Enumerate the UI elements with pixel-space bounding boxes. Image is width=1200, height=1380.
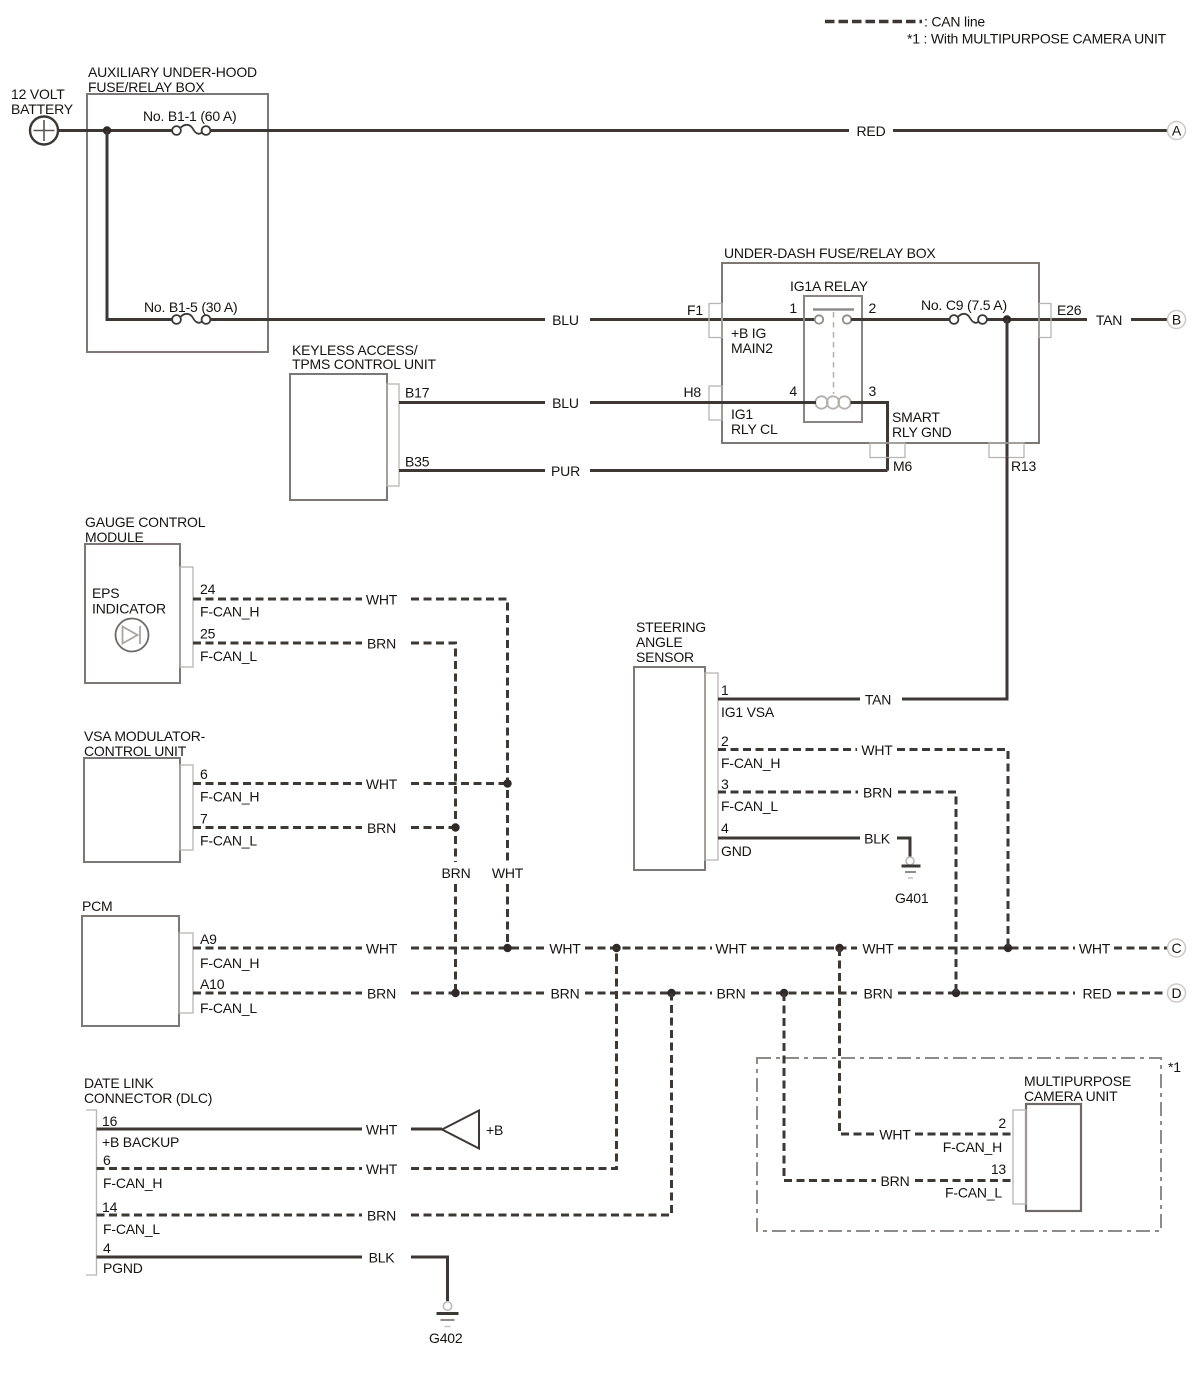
svg-text:BLU: BLU xyxy=(552,312,579,328)
svg-text:F-CAN_H: F-CAN_H xyxy=(721,755,780,771)
svg-text:F-CAN_H: F-CAN_H xyxy=(200,789,259,805)
svg-text:F-CAN_H: F-CAN_H xyxy=(200,604,259,620)
wire BLK to ground xyxy=(411,1257,448,1301)
wire pin6 F-CAN_H to WHT xyxy=(193,782,362,785)
svg-text:A9: A9 xyxy=(200,931,217,947)
wire A9 to WHT xyxy=(193,947,362,950)
auxiliary under-hood fuse/relay box xyxy=(87,94,268,352)
EPS indicator lamp xyxy=(116,619,149,652)
fuse No. C9 (7.5 A) xyxy=(950,314,987,324)
wire RED to terminal A xyxy=(893,129,1168,132)
svg-text:RLY GND: RLY GND xyxy=(892,424,952,440)
junction BRN steering xyxy=(952,989,960,997)
wire pin6 F-CAN_H to WHT xyxy=(97,1167,363,1170)
ground G401 xyxy=(902,857,921,878)
junction VSA F-CAN_L xyxy=(451,823,459,831)
svg-text:G402: G402 xyxy=(429,1330,463,1346)
svg-text:BRN: BRN xyxy=(442,865,471,881)
svg-text:IG1 VSA: IG1 VSA xyxy=(721,704,775,720)
svg-text:PGND: PGND xyxy=(103,1260,143,1276)
svg-text:BRN: BRN xyxy=(881,1173,910,1189)
svg-text:*1 : With MULTIPURPOSE CAMERA: *1 : With MULTIPURPOSE CAMERA UNIT xyxy=(907,31,1167,47)
svg-text:6: 6 xyxy=(200,766,208,782)
terminal A xyxy=(1168,122,1186,140)
wire WHT down to CAN line xyxy=(897,750,1008,949)
svg-text:F-CAN_L: F-CAN_L xyxy=(200,648,257,664)
svg-text:F-CAN_H: F-CAN_H xyxy=(943,1139,1002,1155)
keyless access/TPMS control unit xyxy=(290,374,387,500)
wire BLU to connector F1 xyxy=(590,318,815,321)
ground G402 xyxy=(437,1302,459,1327)
svg-text:INDICATOR: INDICATOR xyxy=(92,601,166,617)
svg-text:WHT: WHT xyxy=(1079,941,1111,957)
option box *1 dash-dot xyxy=(757,1058,1161,1231)
svg-text:WHT: WHT xyxy=(862,941,894,957)
wire pin24 F-CAN_H to WHT xyxy=(193,598,362,601)
svg-text:BRN: BRN xyxy=(367,636,396,652)
svg-text:A10: A10 xyxy=(200,976,225,992)
wire WHT segment 4 xyxy=(751,947,857,950)
wire B17 to BLU label xyxy=(399,401,545,404)
svg-text:F-CAN_L: F-CAN_L xyxy=(103,1221,160,1237)
wire pin1 to TAN xyxy=(718,698,860,701)
svg-text:BRN: BRN xyxy=(863,785,892,801)
svg-text:WHT: WHT xyxy=(861,742,893,758)
gauge control module xyxy=(85,544,180,683)
svg-text:4: 4 xyxy=(103,1240,111,1256)
PCM connector bracket xyxy=(179,933,193,1013)
power symbol +B xyxy=(442,1111,479,1149)
svg-text:F-CAN_H: F-CAN_H xyxy=(200,955,259,971)
PCM box xyxy=(82,916,179,1026)
under-dash fuse/relay box xyxy=(722,263,1039,443)
steering connector bracket xyxy=(705,673,718,860)
svg-text:CAMERA UNIT: CAMERA UNIT xyxy=(1024,1088,1118,1104)
wire BRN vertical lower xyxy=(454,884,457,993)
svg-text:BRN: BRN xyxy=(367,820,396,836)
svg-text:DATE LINK: DATE LINK xyxy=(84,1075,154,1091)
svg-text:No. C9 (7.5 A): No. C9 (7.5 A) xyxy=(921,297,1007,313)
svg-text:7: 7 xyxy=(200,811,208,827)
wire WHT to pin 2 xyxy=(915,1133,1013,1136)
wire WHT to junction xyxy=(411,782,508,785)
svg-text:B17: B17 xyxy=(405,385,430,401)
svg-text:MODULE: MODULE xyxy=(85,529,144,545)
connector R13 xyxy=(989,443,1024,458)
svg-text:24: 24 xyxy=(200,581,216,597)
wire BLK to ground xyxy=(897,838,910,857)
junction VSA F-CAN_H xyxy=(503,779,511,787)
svg-text:2: 2 xyxy=(721,733,729,749)
connector H8 xyxy=(709,386,722,420)
wire WHT to terminal C xyxy=(1114,947,1168,950)
svg-text:WHT: WHT xyxy=(366,592,398,608)
svg-text:4: 4 xyxy=(789,383,797,399)
svg-text:F1: F1 xyxy=(687,302,703,318)
svg-text:WHT: WHT xyxy=(715,941,747,957)
wire BRN to vertical xyxy=(411,643,456,862)
svg-text:CONTROL UNIT: CONTROL UNIT xyxy=(84,743,187,759)
wire BLU to connector H8 xyxy=(590,401,816,404)
svg-text:F-CAN_L: F-CAN_L xyxy=(721,798,778,814)
wire WHT segment 3 xyxy=(585,947,712,950)
svg-text:2: 2 xyxy=(869,300,877,316)
wire TAN to terminal B xyxy=(1131,318,1168,321)
wire pin2 F-CAN_H to WHT xyxy=(718,748,857,751)
svg-text:UNDER-DASH FUSE/RELAY BOX: UNDER-DASH FUSE/RELAY BOX xyxy=(724,245,936,261)
svg-text:: CAN line: : CAN line xyxy=(924,14,985,30)
svg-text:H8: H8 xyxy=(684,384,702,400)
camera connector bracket xyxy=(1013,1110,1026,1204)
svg-text:G401: G401 xyxy=(895,890,929,906)
wire relay pin2 to fuse C9 xyxy=(851,318,950,321)
wire pin7 F-CAN_L to BRN xyxy=(193,826,362,829)
svg-text:3: 3 xyxy=(869,383,877,399)
wire BRN segment 3 xyxy=(585,992,712,995)
svg-text:SENSOR: SENSOR xyxy=(636,649,694,665)
svg-text:16: 16 xyxy=(102,1113,118,1129)
svg-text:MULTIPURPOSE: MULTIPURPOSE xyxy=(1024,1073,1131,1089)
svg-text:3: 3 xyxy=(721,776,729,792)
wire BRN down to CAN line xyxy=(898,792,956,993)
relay coil xyxy=(815,396,850,408)
svg-text:GAUGE CONTROL: GAUGE CONTROL xyxy=(85,514,206,530)
junction to R13 xyxy=(1003,315,1011,323)
gauge connector bracket xyxy=(180,567,193,667)
wire fuse C9 to connector E26 xyxy=(987,318,1088,321)
svg-text:BRN: BRN xyxy=(367,986,396,1002)
svg-text:WHT: WHT xyxy=(549,941,581,957)
wire pin3 F-CAN_L to BRN xyxy=(718,791,858,794)
svg-text:F-CAN_L: F-CAN_L xyxy=(945,1185,1002,1201)
junction BRN to camera xyxy=(780,989,788,997)
svg-text:IG1: IG1 xyxy=(731,406,753,422)
svg-text:BRN: BRN xyxy=(551,986,580,1002)
wire fuse B1-1 to RED label xyxy=(210,129,849,132)
terminal C xyxy=(1168,939,1186,957)
wire BRN to pin 13 xyxy=(915,1179,1013,1182)
wire pin4 PGND to BLK xyxy=(97,1256,363,1259)
svg-text:VSA MODULATOR-: VSA MODULATOR- xyxy=(84,728,206,744)
terminal B xyxy=(1168,311,1186,329)
relay armature dashed link xyxy=(833,312,835,394)
svg-text:D: D xyxy=(1172,985,1182,1001)
wire WHT up to CAN line xyxy=(411,948,617,1169)
wire BRN segment 5 xyxy=(898,992,1075,995)
svg-text:RLY CL: RLY CL xyxy=(731,421,778,437)
wire pin25 F-CAN_L to BRN xyxy=(193,642,362,645)
svg-text:SMART: SMART xyxy=(892,409,940,425)
wire BRN to junction xyxy=(411,826,456,829)
wire A10 to BRN xyxy=(193,992,362,995)
svg-text:14: 14 xyxy=(102,1199,118,1215)
svg-text:4: 4 xyxy=(721,820,729,836)
wire WHT to vertical xyxy=(411,599,508,862)
svg-text:1: 1 xyxy=(789,300,797,316)
svg-text:WHT: WHT xyxy=(879,1127,911,1143)
svg-text:WHT: WHT xyxy=(366,1161,398,1177)
VSA connector bracket xyxy=(180,765,193,850)
wire pin14 F-CAN_L to BRN xyxy=(97,1214,363,1217)
svg-text:WHT: WHT xyxy=(492,865,524,881)
svg-text:BRN: BRN xyxy=(367,1208,396,1224)
svg-text:E26: E26 xyxy=(1057,302,1082,318)
wire WHT segment 2 xyxy=(411,947,545,950)
svg-text:M6: M6 xyxy=(893,458,912,474)
wire R13 down to IG1 VSA xyxy=(1006,320,1009,700)
wire battery to fuse B1-1 xyxy=(58,129,173,132)
svg-text:FUSE/RELAY BOX: FUSE/RELAY BOX xyxy=(88,79,205,95)
relay IG1A xyxy=(804,296,862,422)
relay contact terminal pin2 xyxy=(843,315,851,323)
junction battery feed xyxy=(103,126,111,134)
svg-text:CONNECTOR (DLC): CONNECTOR (DLC) xyxy=(84,1090,212,1106)
svg-text:RED: RED xyxy=(1083,986,1112,1002)
svg-text:C: C xyxy=(1172,940,1182,956)
svg-text:WHT: WHT xyxy=(366,776,398,792)
junction WHT to camera xyxy=(835,944,843,952)
svg-text:IG1A RELAY: IG1A RELAY xyxy=(790,278,869,294)
svg-text:EPS: EPS xyxy=(92,585,119,601)
svg-text:TAN: TAN xyxy=(1096,312,1122,328)
terminal D xyxy=(1168,984,1186,1002)
wire PUR to M6 xyxy=(590,469,888,472)
wire BRN down to camera xyxy=(784,993,876,1181)
svg-text:GND: GND xyxy=(721,843,752,859)
wire WHT vertical lower xyxy=(506,884,509,948)
battery 12V xyxy=(30,117,58,145)
relay contact terminal pin1 xyxy=(815,315,823,323)
legend CAN line sample xyxy=(825,20,922,23)
svg-text:MAIN2: MAIN2 xyxy=(731,340,773,356)
junction BRN to DLC xyxy=(667,989,675,997)
wire fuse B1-5 to BLU label xyxy=(210,318,545,321)
wire BRN segment 2 xyxy=(411,992,545,995)
svg-text:PUR: PUR xyxy=(551,463,580,479)
wire B35 to PUR label xyxy=(399,469,545,472)
svg-text:WHT: WHT xyxy=(366,1122,398,1138)
wire pin4 GND to BLK xyxy=(718,837,860,840)
wire WHT segment 5 xyxy=(898,947,1075,950)
svg-text:+B: +B xyxy=(486,1122,503,1138)
svg-text:1: 1 xyxy=(721,682,729,698)
svg-text:WHT: WHT xyxy=(366,941,398,957)
fuse B1-1 (60 A) xyxy=(172,125,210,135)
svg-text:*1: *1 xyxy=(1168,1059,1181,1075)
wire BRN segment 4 xyxy=(751,992,857,995)
svg-text:B35: B35 xyxy=(405,454,430,470)
svg-text:STEERING: STEERING xyxy=(636,619,706,635)
svg-text:BLK: BLK xyxy=(864,831,891,847)
svg-text:F-CAN_L: F-CAN_L xyxy=(200,833,257,849)
svg-text:TAN: TAN xyxy=(865,692,891,708)
svg-text:No. B1-5 (30 A): No. B1-5 (30 A) xyxy=(144,299,238,315)
DLC connector bracket xyxy=(86,1110,97,1275)
svg-text:PCM: PCM xyxy=(82,898,113,914)
svg-text:BLK: BLK xyxy=(369,1250,396,1266)
svg-text:+B BACKUP: +B BACKUP xyxy=(102,1134,179,1150)
svg-text:13: 13 xyxy=(991,1161,1007,1177)
fuse B1-5 (30 A) xyxy=(172,314,210,324)
svg-text:A: A xyxy=(1172,123,1182,139)
svg-text:BLU: BLU xyxy=(552,395,579,411)
svg-text:RED: RED xyxy=(857,123,886,139)
wire TAN up to R13 xyxy=(902,457,1007,699)
relay contact bar xyxy=(813,308,854,311)
svg-text:B: B xyxy=(1172,312,1181,328)
junction WHT to DLC xyxy=(612,944,620,952)
connector E26 xyxy=(1039,304,1051,338)
svg-text:AUXILIARY UNDER-HOOD: AUXILIARY UNDER-HOOD xyxy=(88,64,257,80)
wire BRN up to CAN line xyxy=(411,993,672,1215)
svg-text:BRN: BRN xyxy=(864,986,893,1002)
svg-text:R13: R13 xyxy=(1011,458,1036,474)
wire pin16 +B BACKUP to WHT xyxy=(97,1128,363,1131)
wire relay pin3 to M6 xyxy=(851,403,888,471)
multipurpose camera unit xyxy=(1026,1104,1081,1211)
svg-text:TPMS CONTROL UNIT: TPMS CONTROL UNIT xyxy=(292,356,437,372)
keyless connector bracket xyxy=(387,384,399,486)
svg-text:12 VOLT: 12 VOLT xyxy=(11,86,65,102)
svg-text:2: 2 xyxy=(998,1115,1006,1131)
junction WHT steering xyxy=(1004,944,1012,952)
svg-text:BRN: BRN xyxy=(717,986,746,1002)
junction WHT column xyxy=(503,944,511,952)
svg-text:+B IG: +B IG xyxy=(731,325,766,341)
steering angle sensor xyxy=(634,667,705,870)
wire WHT down to camera xyxy=(840,948,876,1134)
VSA modulator-control unit xyxy=(84,758,180,862)
wire junction down to B1-5 xyxy=(107,131,173,320)
wire RED to terminal D xyxy=(1117,992,1168,995)
svg-text:F-CAN_L: F-CAN_L xyxy=(200,1000,257,1016)
svg-text:6: 6 xyxy=(103,1152,111,1168)
connector M6 xyxy=(870,443,905,458)
junction BRN column xyxy=(451,989,459,997)
connector F1 xyxy=(709,304,722,338)
svg-text:F-CAN_H: F-CAN_H xyxy=(103,1175,162,1191)
svg-text:ANGLE: ANGLE xyxy=(636,634,682,650)
wire WHT to +B symbol xyxy=(411,1128,442,1131)
svg-text:25: 25 xyxy=(200,626,216,642)
svg-text:BATTERY: BATTERY xyxy=(11,101,74,117)
svg-text:No. B1-1 (60 A): No. B1-1 (60 A) xyxy=(143,108,237,124)
